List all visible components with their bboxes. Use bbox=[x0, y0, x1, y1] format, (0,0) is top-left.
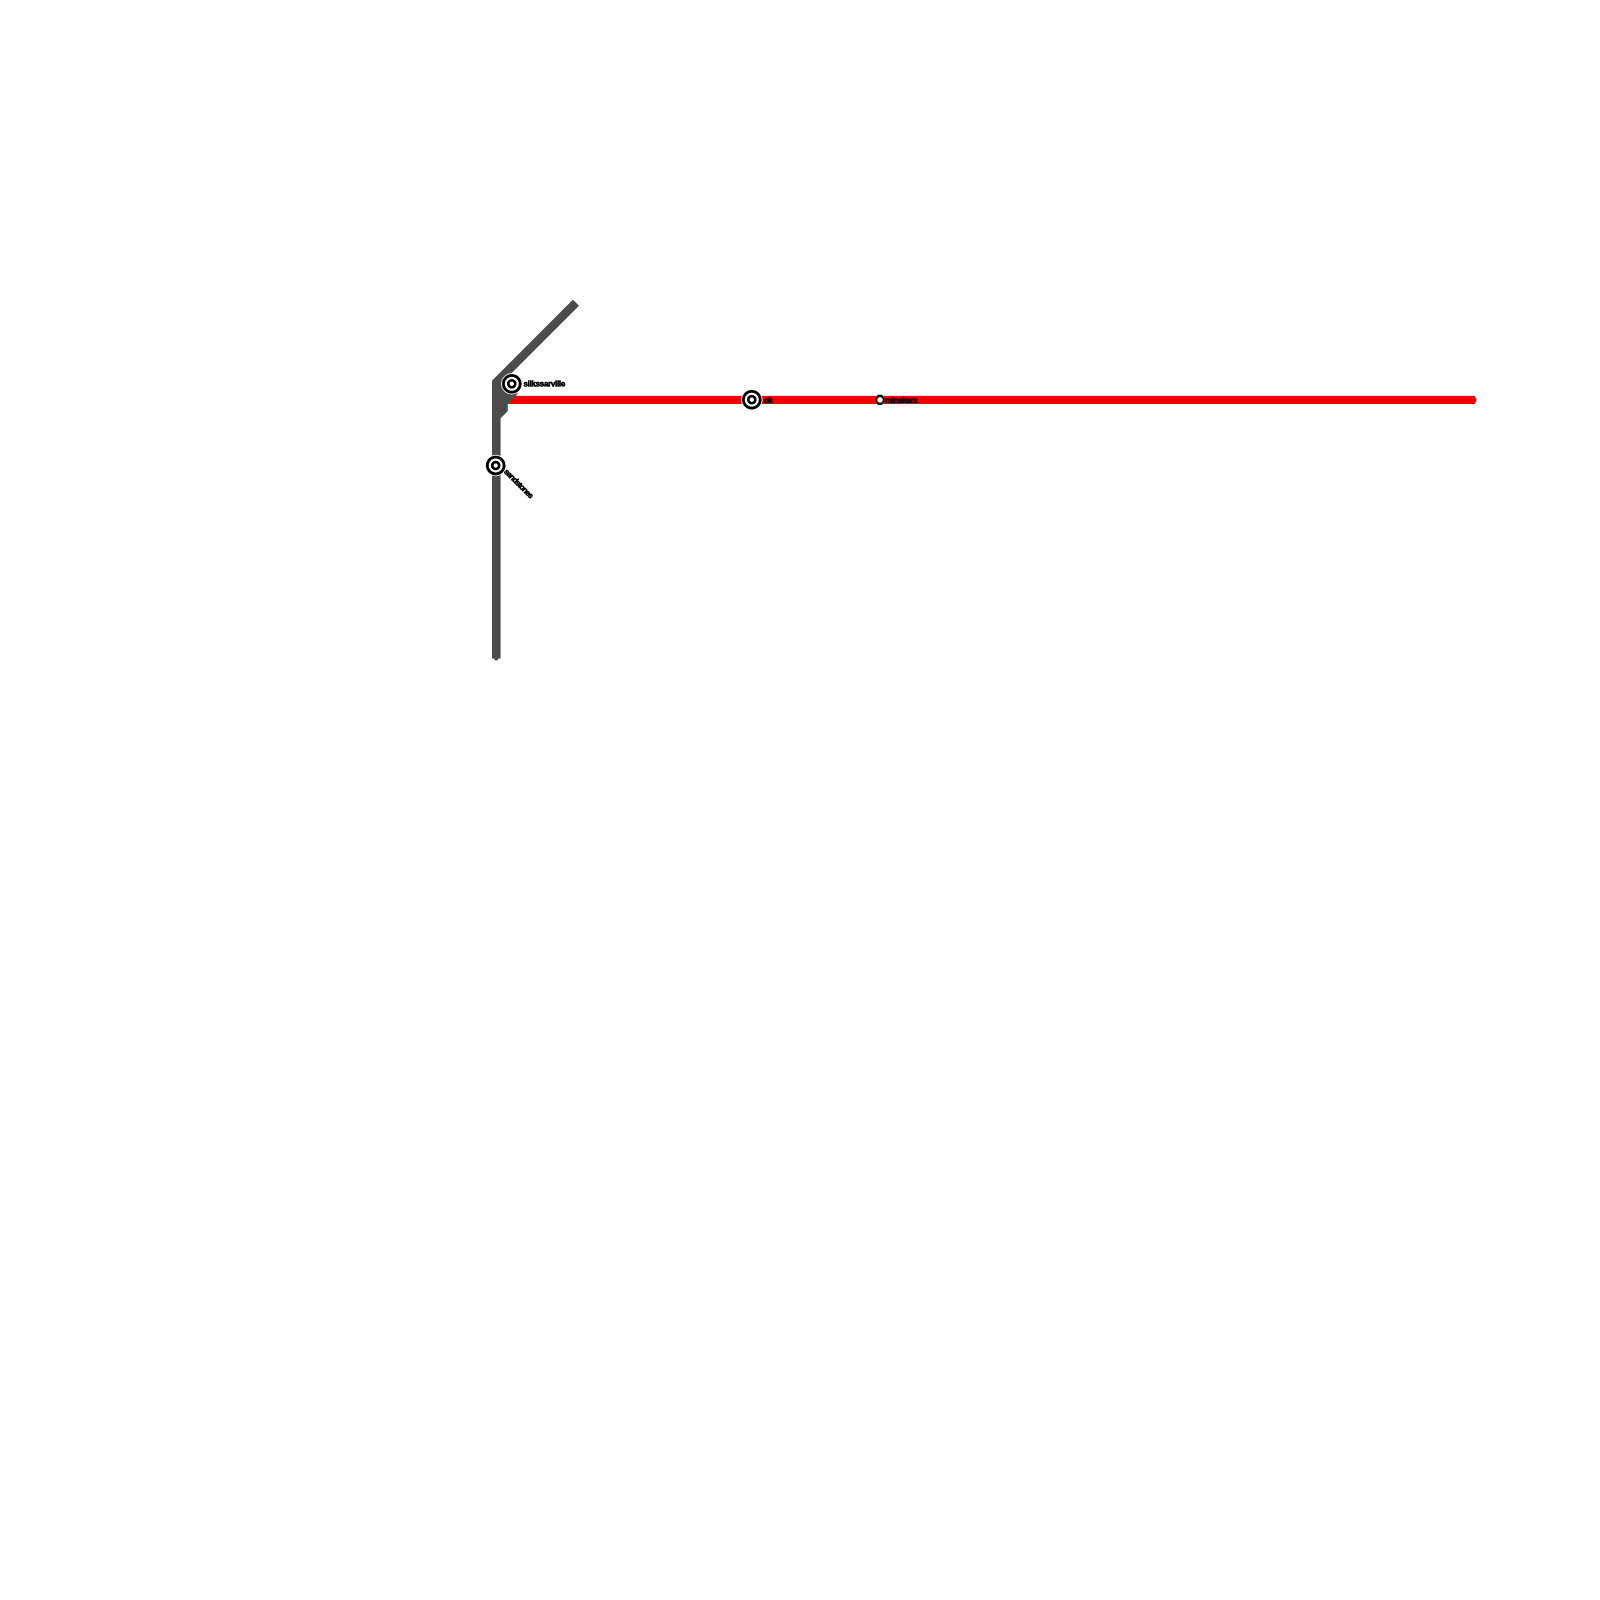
svg-text:minskers: minskers bbox=[885, 396, 919, 405]
svg-text:silkssarville: silkssarville bbox=[524, 379, 566, 388]
svg-text:ok: ok bbox=[764, 396, 774, 405]
